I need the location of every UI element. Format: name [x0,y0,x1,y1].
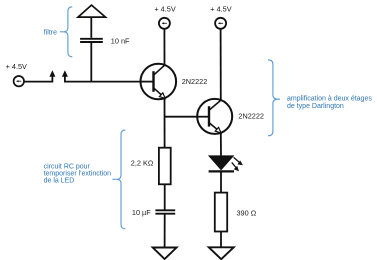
wire LED cathode to R2 [220,172,222,193]
wire arrow to Q1 base [65,77,141,82]
connection arrow up (left) [49,70,55,77]
svg-text:amplification à deux étages: amplification à deux étages [287,96,372,103]
svg-text:+ 4.5V: + 4.5V [154,4,175,13]
wire C2 to ground [164,215,166,248]
wire antenna to capacitor C1 [90,17,92,38]
wire node to Q2 base [165,116,198,118]
wire input to first arrow [24,77,52,82]
transistor Q2 2N2222 [197,99,232,134]
wire V2 to Q2 collector [220,29,222,101]
wire R2 to ground [220,232,222,248]
brace darlington (blue) [268,60,280,136]
supply +4.5V (V1, left) [159,18,170,29]
wire Q1 emitter down to R1 / Q2 base node [164,98,166,148]
wire Q2 emitter to LED anode [220,133,222,157]
LED D1 [209,156,234,172]
label amplification darlington (2 lines) [287,96,372,110]
brace circuit RC (blue) [117,130,126,229]
ground (under C2) [153,248,177,260]
wire V1 to Q1 collector [163,29,165,66]
dash filtre [60,31,64,33]
LED emission arrow 1 [234,157,243,165]
resistor R1 2,2 Kohm [159,148,171,185]
terminal J1 +4.5V input [14,76,24,86]
label circuit RC (3 lines) [44,164,112,185]
capacitor C1 10 nF [80,39,103,42]
svg-text:2N2222: 2N2222 [238,112,264,121]
wire C1 to base wire [90,43,92,83]
svg-text:filtre: filtre [44,30,57,37]
transistor Q1 2N2222 [141,64,177,100]
svg-text:de type Darlington: de type Darlington [287,103,344,110]
connection arrow up (right) [62,70,68,77]
svg-text:de la LED: de la LED [44,177,75,184]
svg-text:+ 4.5V: + 4.5V [6,62,27,71]
svg-text:2N2222: 2N2222 [182,77,208,86]
wire R1 to C2 [164,184,166,210]
dash circuit RC [112,178,116,180]
capacitor C2 10 uF [155,210,175,213]
ground (under R2) [209,247,234,259]
brace filtre (blue) [64,7,73,57]
svg-text:10 µF: 10 µF [132,208,151,217]
antenna symbol (filter input) [78,5,106,17]
svg-text:+ 4.5V: + 4.5V [210,4,231,13]
svg-text:390 Ω: 390 Ω [237,209,257,218]
svg-text:2,2 KΩ: 2,2 KΩ [131,158,154,167]
svg-text:10 nF: 10 nF [111,36,130,45]
LED emission arrow 2 [232,162,239,171]
resistor R2 390 ohm [215,193,227,232]
supply +4.5V (V2, right) [215,18,226,29]
